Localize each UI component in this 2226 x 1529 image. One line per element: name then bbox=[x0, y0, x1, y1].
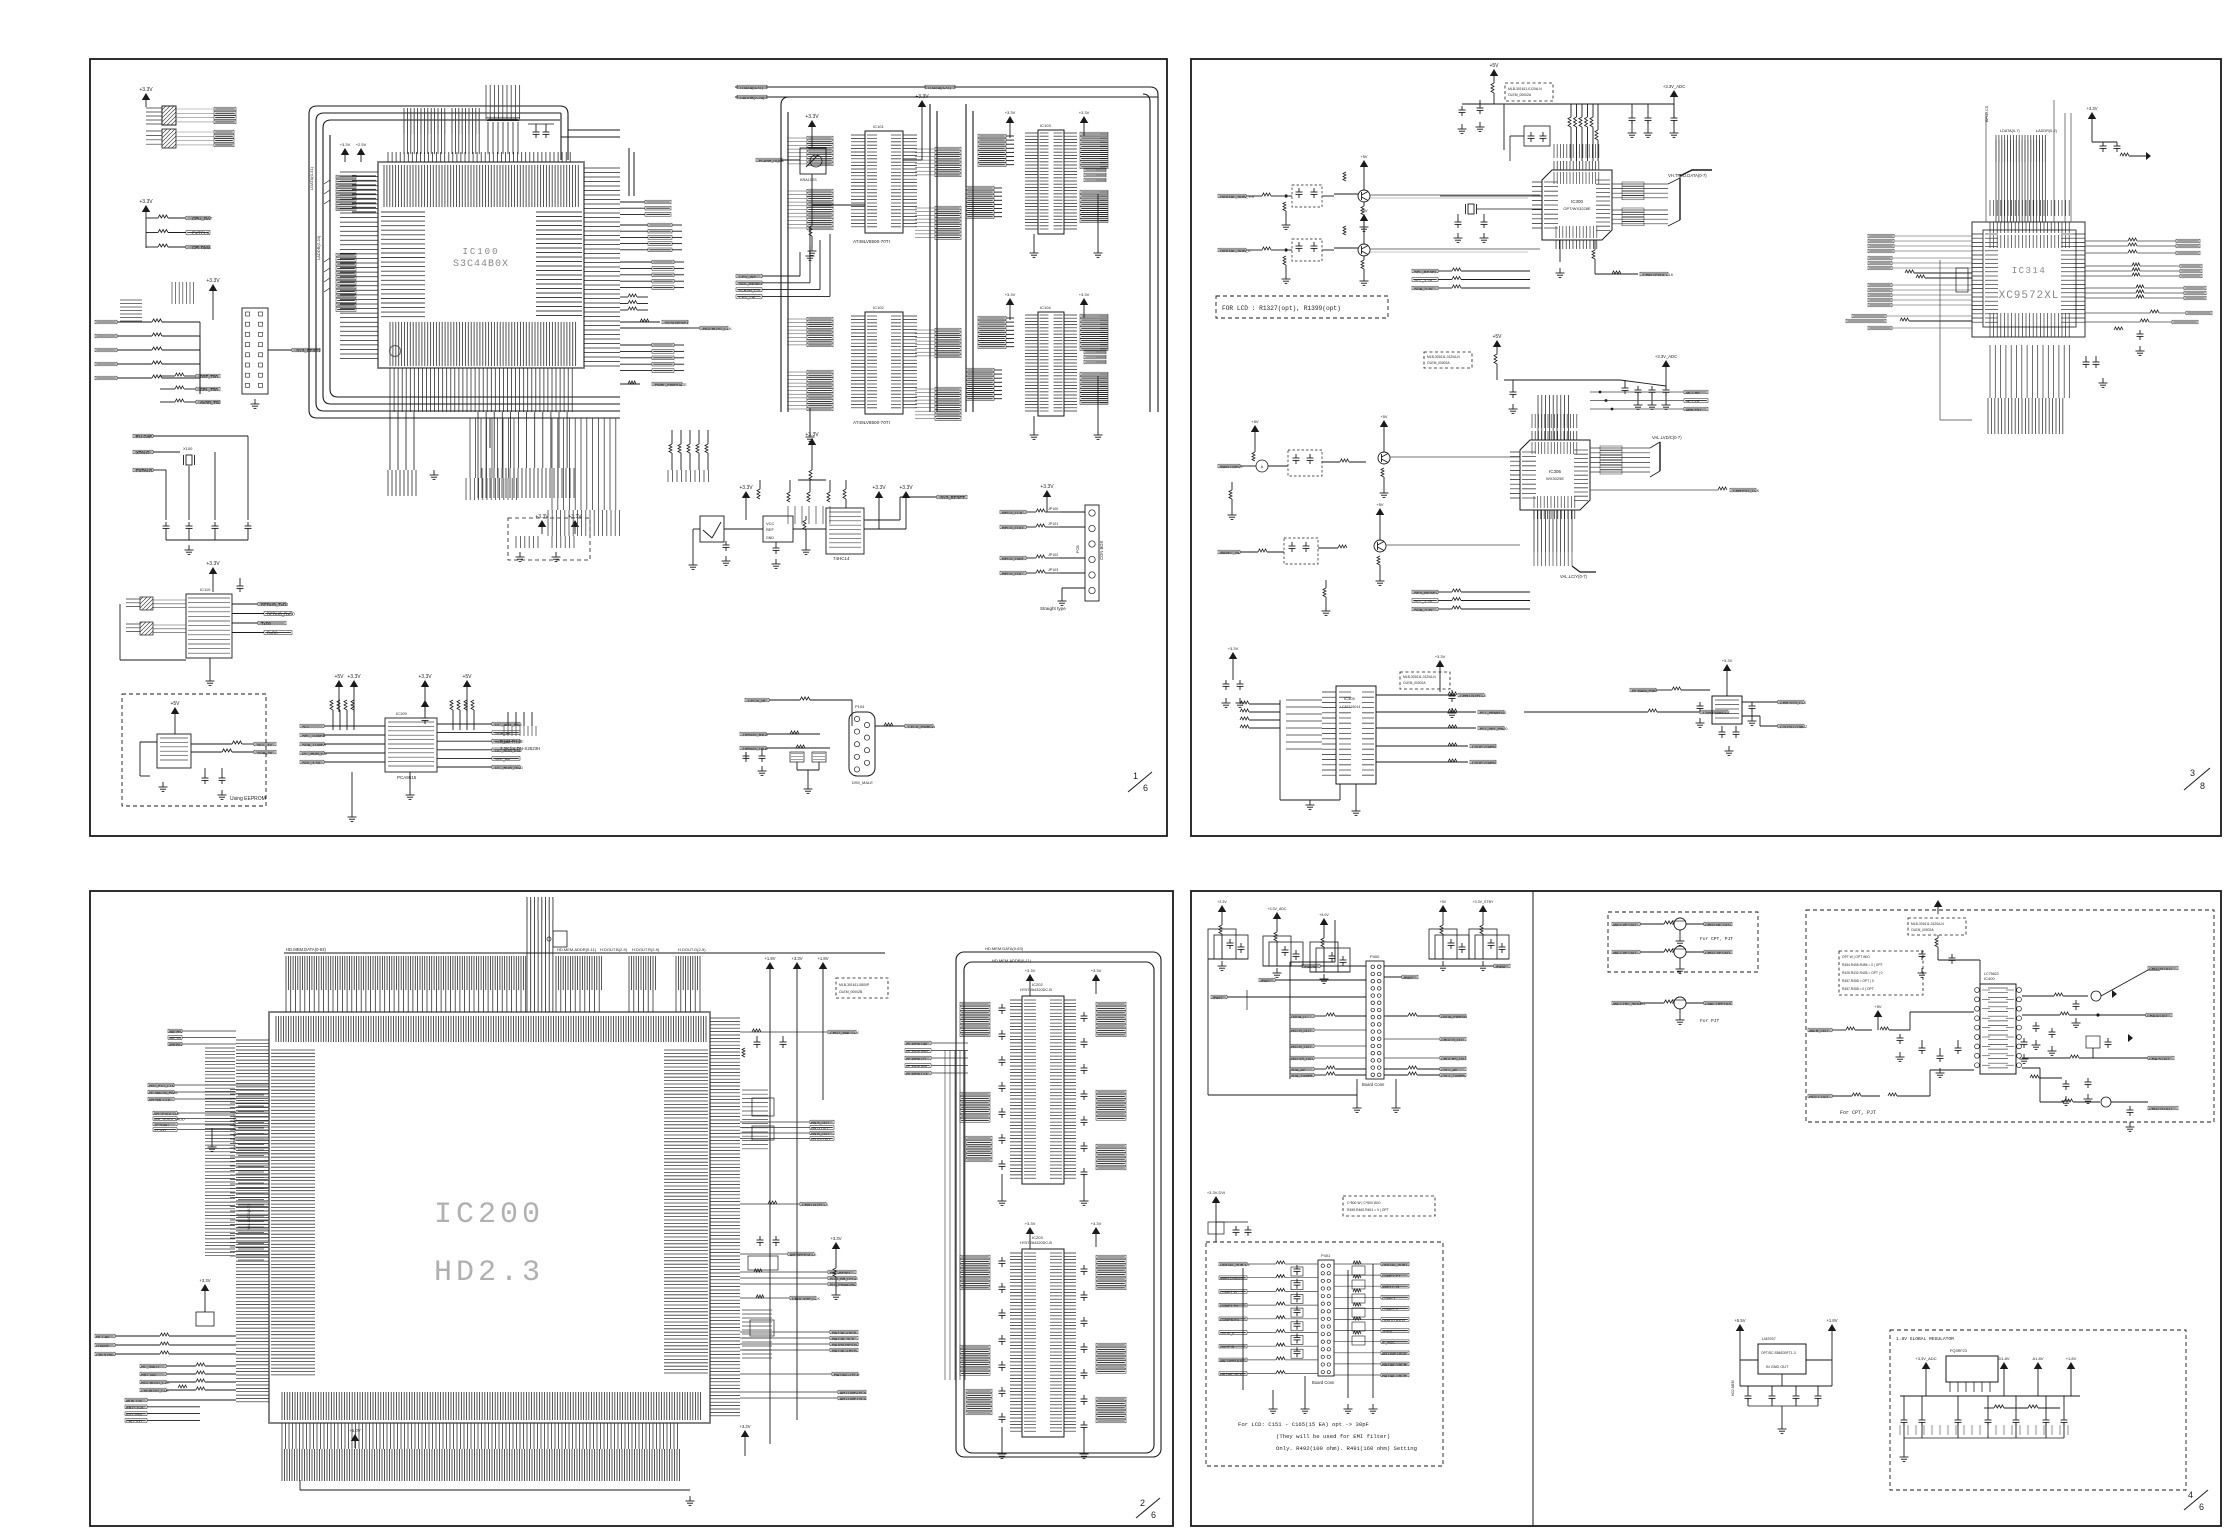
svg-text:OLEM_00002A: OLEM_00002A bbox=[1911, 928, 1934, 932]
svg-text:+5V: +5V bbox=[1360, 208, 1368, 213]
svg-text:KH.SML.CLK: KH.SML.CLK bbox=[149, 1098, 171, 1102]
svg-text:CHD2_WAL.CLK: CHD2_WAL.CLK bbox=[830, 1031, 859, 1035]
svg-text:2.2K for DN-S2523H: 2.2K for DN-S2523H bbox=[500, 746, 540, 751]
svg-text:PLLCAP: PLLCAP bbox=[136, 434, 152, 439]
amp lower-left mosfet bbox=[2086, 1036, 2100, 1048]
svg-text:+3.3V: +3.3V bbox=[1091, 1221, 1102, 1226]
P401 right FET clusters bbox=[1352, 1266, 1365, 1275]
DDR memory block inner ring bbox=[964, 962, 1154, 1453]
svg-text:IC203: IC203 bbox=[1032, 1235, 1043, 1240]
svg-text:HDC-RESET: HDC-RESET bbox=[830, 1271, 852, 1275]
svg-text:A1.8V: A1.8V bbox=[2033, 1356, 2044, 1361]
svg-text:MLB-301611-0120A-N: MLB-301611-0120A-N bbox=[1403, 675, 1436, 679]
IC109 right output rows bbox=[437, 723, 492, 725]
svg-text:VAL.LC/Y(0-7): VAL.LC/Y(0-7) bbox=[1560, 574, 1588, 579]
svg-text:HD2.R_OUT: HD2.R_OUT bbox=[1291, 1045, 1312, 1049]
amp mid caps diodes bbox=[2033, 1025, 2040, 1027]
CHH EXT CLK callout bbox=[1590, 489, 1718, 491]
IC200 top tall bundle bbox=[527, 897, 553, 1012]
input buffer transistor bbox=[1358, 190, 1370, 202]
IC203 right label rows bbox=[1096, 1255, 1126, 1259]
IC300 top resistor columns bbox=[1570, 104, 1572, 117]
svg-text:+3.3V: +3.3V bbox=[1040, 484, 1054, 490]
svg-text:R457.R458 = 0 | OPT: R457.R458 = 0 | OPT bbox=[1842, 987, 1874, 991]
svg-text:VAL.LVDS(0-7): VAL.LVDS(0-7) bbox=[247, 1204, 251, 1230]
IC100 top pin labels inside bbox=[384, 165, 578, 207]
svg-text:+3.3V: +3.3V bbox=[1079, 110, 1090, 115]
MAIN_DVBS coupling network bbox=[1288, 450, 1322, 476]
svg-text:MLB-301611-0120A-N: MLB-301611-0120A-N bbox=[1427, 355, 1460, 359]
svg-text:IC103: IC103 bbox=[1040, 123, 1051, 128]
EEPROM IC111 bbox=[171, 707, 179, 714]
audio input row MAIN_DVBS bbox=[1251, 425, 1259, 432]
IC202 grounds bbox=[1001, 1174, 1003, 1196]
svg-text:DDOA_PWRDN: DDOA_PWRDN bbox=[1441, 1015, 1467, 1019]
svg-text:+3.3V: +3.3V bbox=[139, 87, 153, 93]
below-chip long vertical bundle bbox=[552, 418, 616, 510]
X301 output callouts bbox=[1742, 701, 1778, 703]
svg-text:SEL_TUNER: SEL_TUNER bbox=[302, 733, 326, 738]
audio bias resistors cluster bbox=[1229, 490, 1232, 499]
svg-text:LOAD8: LOAD8 bbox=[96, 1344, 108, 1348]
IC203 power arrows bbox=[1026, 1227, 1034, 1234]
global regulator labels band bbox=[1900, 1425, 2068, 1435]
IC202 right pin stubs bbox=[1064, 1000, 1076, 1178]
svg-text:BPLD.CS: BPLD.CS bbox=[1985, 105, 1989, 122]
svg-text:CHD2.VE.OUT: CHD2.VE.OUT bbox=[1705, 951, 1731, 955]
global regulator ground bbox=[1903, 1438, 1905, 1452]
svg-text:VAL.VS: VAL.VS bbox=[169, 1037, 182, 1041]
svg-text:+3.3V: +3.3V bbox=[139, 199, 153, 205]
svg-text:IC200: IC200 bbox=[434, 1198, 544, 1232]
svg-text:CYOE.27MHZ: CYOE.27MHZ bbox=[1472, 745, 1497, 749]
IC104 grounds bbox=[1033, 416, 1035, 430]
svg-text:CPL_T50: CPL_T50 bbox=[200, 387, 218, 392]
svg-text:CKUL.VSF_CLK: CKUL.VSF_CLK bbox=[792, 1297, 821, 1301]
svg-text:SDL_RESET: SDL_RESET bbox=[739, 281, 763, 286]
video input row DIGITAL_SUB_C bbox=[1218, 248, 1246, 252]
P401 right signal rows bbox=[1334, 1263, 1381, 1265]
audio input row MAIN_C bbox=[1218, 550, 1240, 554]
svg-text:+5V: +5V bbox=[1440, 900, 1447, 904]
svg-text:SYS_RESET: SYS_RESET bbox=[940, 495, 965, 500]
svg-text:PQ3RF23: PQ3RF23 bbox=[1950, 1349, 1967, 1353]
SDL_BRIDGE select resistors bbox=[787, 492, 790, 502]
svg-text:SDA_3V: SDA_3V bbox=[257, 750, 273, 755]
svg-text:OLEM_00002A: OLEM_00002A bbox=[1427, 361, 1450, 365]
svg-text:BST_T00: BST_T00 bbox=[200, 374, 218, 379]
IC306 top bundle bbox=[1538, 395, 1568, 440]
svg-text:VAL.HS: VAL.HS bbox=[169, 1030, 182, 1034]
svg-text:+3.3V_ADC: +3.3V_ADC bbox=[1655, 354, 1677, 359]
svg-text:IF_AGC: IF_AGC bbox=[1382, 1341, 1395, 1345]
reset wiring bbox=[693, 528, 700, 530]
svg-text:SDA_3.3V: SDA_3.3V bbox=[1414, 607, 1433, 612]
IC100 top pin stub group A bbox=[404, 108, 445, 154]
svg-text:DEBUG_RxD0: DEBUG_RxD0 bbox=[267, 612, 295, 617]
IC100 right callout group SAT bbox=[645, 200, 671, 204]
P400 left vertical rail bbox=[1207, 959, 1209, 1095]
svg-text:DIGITAL_SUB_Y/V: DIGITAL_SUB_Y/V bbox=[1220, 194, 1255, 199]
IC109 right resistor columns 2 bbox=[507, 712, 509, 726]
AH LLINE callouts bbox=[740, 1391, 838, 1393]
IC300 option dashed box bbox=[1505, 83, 1553, 101]
svg-text:MAIN.C_IN: MAIN.C_IN bbox=[1220, 551, 1239, 555]
svg-text:FOR LCD : R1327(opt), R1399(op: FOR LCD : R1327(opt), R1399(opt) bbox=[1222, 305, 1341, 312]
svg-text:+5V: +5V bbox=[1360, 154, 1368, 159]
svg-text:CHA.S.OUT: CHA.S.OUT bbox=[2149, 1057, 2170, 1061]
svg-text:PCA9515: PCA9515 bbox=[397, 775, 417, 780]
IC104 left label stack bbox=[978, 316, 1006, 320]
IC101 ground bbox=[809, 227, 811, 251]
svg-text:CHD2.G_OUT: CHD2.G_OUT bbox=[1441, 1038, 1465, 1042]
IC300 bottom pin stubs bbox=[1556, 240, 1597, 249]
svg-text:CHH.SYS_CLK: CHH.SYS_CLK bbox=[1780, 701, 1807, 705]
IC101 pin labels bbox=[867, 135, 877, 227]
global regulator ferrites bbox=[1994, 1405, 2004, 1408]
IC103 pin labels bbox=[1040, 133, 1049, 229]
dram bus ring bbox=[1150, 87, 1158, 412]
IC110 left resistor packs bbox=[140, 597, 153, 610]
svg-text:MA.CVE.OUT: MA.CVE.OUT bbox=[1613, 951, 1637, 955]
svg-text:FLASH_DQ6R: FLASH_DQ6R bbox=[759, 159, 784, 163]
PWRL POWERSTATE callout bbox=[620, 383, 640, 385]
CPLD JTAG jumper rows bbox=[1000, 510, 1026, 514]
MA CTRL signal row bbox=[1612, 1001, 1640, 1005]
IC314 top bus bundle bbox=[1996, 135, 2045, 222]
svg-text:AVSB_T00: AVSB_T00 bbox=[200, 400, 221, 405]
X301 caps bbox=[1697, 705, 1704, 707]
IC200 right lower network bbox=[742, 1310, 772, 1358]
svg-text:+3.3V: +3.3V bbox=[1435, 654, 1446, 659]
svg-text:AH.SPEEDCLK: AH.SPEEDCLK bbox=[790, 1253, 817, 1257]
svg-text:+3.3V-DVI: +3.3V-DVI bbox=[1207, 1190, 1225, 1195]
svg-text:+3.3V: +3.3V bbox=[805, 114, 819, 120]
svg-text:IC314: IC314 bbox=[2012, 266, 2047, 276]
svg-text:CPU_WE: CPU_WE bbox=[739, 274, 756, 279]
svg-text:MLB-301611-0120A-N: MLB-301611-0120A-N bbox=[1508, 87, 1542, 91]
IC200 top bundle junction box bbox=[553, 931, 567, 947]
svg-text:IC202: IC202 bbox=[1032, 982, 1043, 987]
svg-text:SDA_AV: SDA_AV bbox=[1291, 1068, 1306, 1072]
svg-text:PLL_FRMAT/BD: PLL_FRMAT/BD bbox=[830, 1283, 857, 1287]
MAIN_DVBS buffer transistor bbox=[1378, 452, 1390, 464]
IC102 right label stack bbox=[935, 328, 961, 332]
BPLD CS rotated label bbox=[1985, 112, 1987, 222]
svg-text:D1.8V: D1.8V bbox=[1998, 1356, 2009, 1361]
IC314 bottom label columns bbox=[1990, 345, 2070, 398]
svg-text:HD2.3: HD2.3 bbox=[434, 1256, 544, 1290]
svg-text:CXH-LVDF.CLK: CXH-LVDF.CLK bbox=[1703, 711, 1730, 715]
svg-text:+3.3V: +3.3V bbox=[872, 485, 886, 491]
DVI +3.3V feed bbox=[1212, 1196, 1220, 1203]
svg-text:+5V: +5V bbox=[1492, 334, 1502, 340]
EEPROM option dashed box bbox=[122, 694, 266, 806]
DVI input dashed cluster box bbox=[1206, 1242, 1443, 1466]
svg-text:+3.3V: +3.3V bbox=[1091, 968, 1102, 973]
IC314 left callout rows group2 bbox=[1868, 256, 1892, 260]
IC203 pin labels bbox=[1024, 1253, 1036, 1431]
IC203 right pin stubs bbox=[1064, 1253, 1076, 1431]
IC102 ground bbox=[809, 408, 811, 432]
resistor pack RP101 bbox=[162, 129, 176, 148]
P401 input filter 6 bbox=[1291, 1349, 1303, 1358]
IC314 left callout rows group4 bbox=[1852, 314, 1886, 318]
svg-text:HA.CNC.SCK: HA.CNC.SCK bbox=[832, 1337, 855, 1341]
IC200 right bottom arrow bbox=[741, 1430, 749, 1437]
crystal oscillator X100 cluster bbox=[133, 434, 153, 438]
svg-text:+3.3V: +3.3V bbox=[1217, 900, 1227, 904]
svg-text:JP403: JP403 bbox=[1212, 996, 1222, 1000]
svg-text:TP.SDA0: TP.SDA0 bbox=[154, 1123, 169, 1127]
IC101 left label stack bbox=[807, 136, 833, 140]
schematic sheet 4 border bbox=[1191, 891, 2221, 1526]
svg-text:HD2.VS_OUT: HD2.VS_OUT bbox=[1291, 1057, 1314, 1061]
input bias resistors bbox=[1283, 202, 1286, 211]
svg-text:CPLDMX: CPLDMX bbox=[192, 245, 211, 250]
svg-text:For LCD: C151 - C165(15 EA): For LCD: C151 - C165(15 EA) opt -> 30pF bbox=[1238, 1421, 1369, 1428]
svg-text:IC110: IC110 bbox=[200, 587, 211, 592]
svg-text:JP101: JP101 bbox=[1048, 522, 1058, 526]
IC200 inner left label band bbox=[271, 1050, 315, 1375]
IC400 right output row G bbox=[2022, 1067, 2040, 1069]
IC100 left data bus labels bbox=[352, 176, 376, 212]
svg-text:AH.LINE.LRCK: AH.LINE.LRCK bbox=[1382, 1352, 1407, 1356]
MA CTRL vertical wires bbox=[2053, 100, 2055, 222]
IC400 right output row S bbox=[2022, 1057, 2070, 1059]
IC200 bottom rail bbox=[300, 1489, 690, 1491]
EEPROM pull-up resistors bbox=[191, 743, 232, 745]
reset input rows RST100-RST104 bbox=[95, 320, 117, 324]
svg-text:+3.3V: +3.3V bbox=[1228, 646, 1239, 651]
P400 decoupling cap group 4 bbox=[1439, 905, 1447, 912]
P401 input filter 2 bbox=[1291, 1294, 1303, 1303]
dram chip IC103 HY57V641620 bbox=[1038, 130, 1064, 234]
svg-text:MDK.T00: MDK.T00 bbox=[126, 1399, 142, 1403]
svg-text:8: 8 bbox=[2200, 781, 2205, 791]
svg-text:H.DOUT.R(2-9): H.DOUT.R(2-9) bbox=[632, 947, 660, 952]
IC314 right resistor callout rows B bbox=[2085, 265, 2132, 267]
svg-text:SDA_AV: SDA_AV bbox=[495, 731, 511, 736]
svg-text:+3.3V: +3.3V bbox=[739, 1424, 750, 1429]
CPLD JTAG connector CON BOX bbox=[1085, 505, 1099, 601]
svg-text:+3.3V: +3.3V bbox=[340, 142, 351, 147]
P400 board connector bbox=[1366, 961, 1384, 1079]
svg-text:JP401: JP401 bbox=[1260, 979, 1270, 983]
svg-text:SPL_RESET: SPL_RESET bbox=[1414, 269, 1438, 274]
svg-text:MCLH8: MCLH8 bbox=[1686, 390, 1700, 395]
svg-text:I2C_HUB_GND: I2C_HUB_GND bbox=[495, 765, 523, 770]
P400 decoupling cap group 2 bbox=[1273, 912, 1281, 919]
IC305 bottom ground bbox=[1355, 784, 1357, 806]
svg-text:REF: REF bbox=[766, 527, 775, 532]
svg-text:CHLHOST_CLK: CHLHOST_CLK bbox=[141, 1389, 169, 1393]
IC200 bottom pin stubs bbox=[282, 1423, 678, 1449]
IC300 input filter caps bbox=[1477, 107, 1484, 109]
input bias resistors bbox=[1283, 256, 1286, 265]
flash chip IC101 AT49LV8500 bbox=[865, 131, 903, 233]
IC300 right data bus group A bbox=[1612, 183, 1668, 185]
DATA label stack left bbox=[336, 176, 356, 178]
memory bus LDATA top rail bbox=[735, 86, 1150, 88]
page number 2/6 bbox=[1136, 1498, 1160, 1518]
IC101 right label stack bbox=[935, 147, 961, 151]
CPU_TDO rows bbox=[160, 375, 175, 377]
audio amp option table bbox=[1839, 951, 1923, 995]
svg-text:I2C_HUB_EN: I2C_HUB_EN bbox=[302, 751, 327, 756]
flash boot pull resistor bbox=[811, 174, 813, 226]
SYSLRESET HD2 HOST CLK callouts bbox=[620, 321, 660, 323]
svg-text:XC9572XL: XC9572XL bbox=[1999, 290, 2060, 302]
svg-text:JP402M: JP402M bbox=[1303, 965, 1316, 969]
svg-text:VH.TPVDL.CLK: VH.TPVDL.CLK bbox=[154, 1112, 180, 1116]
IC100 right callout group I2C bbox=[652, 260, 674, 264]
svg-text:PLL_FRMFD50: PLL_FRMFD50 bbox=[1480, 711, 1506, 715]
svg-text:HD2.B_OUT: HD2.B_OUT bbox=[1291, 1029, 1312, 1033]
IC306 3.3V adc rail bbox=[1662, 360, 1670, 367]
IC300 crystal cluster bbox=[1468, 204, 1474, 214]
svg-text:EXTALO: EXTALO bbox=[136, 468, 153, 473]
schematic sheet 3 border bbox=[1191, 59, 2221, 836]
svg-text:FLASH_CS: FLASH_CS bbox=[739, 288, 760, 293]
P400 right signal rows bbox=[1440, 1014, 1466, 1018]
P401 input filter 4 bbox=[1291, 1322, 1303, 1331]
IC200 inner right label band bbox=[664, 1050, 708, 1373]
svg-text:HA.DAC.RCK: HA.DAC.RCK bbox=[1220, 1373, 1243, 1377]
svg-text:2: 2 bbox=[1140, 1498, 1145, 1508]
IC100 left pin labels inside bbox=[381, 212, 425, 317]
IC305 dashed option box bbox=[1400, 672, 1450, 689]
IC202 left pin stubs bbox=[1010, 1000, 1022, 1178]
IC305 right callout rows bbox=[1376, 694, 1456, 696]
CPT PJT filter dashed box bbox=[1608, 912, 1758, 972]
standby regulator caps bbox=[1745, 1395, 1752, 1397]
svg-text:+3.3V_ADC: +3.3V_ADC bbox=[1915, 1356, 1936, 1361]
IC200 right option dashed box bbox=[836, 978, 888, 998]
svg-text:MA.CVE.OUT: MA.CVE.OUT bbox=[1613, 923, 1637, 927]
svg-text:HA.DAC.LRCH: HA.DAC.LRCH bbox=[1382, 1374, 1407, 1378]
svg-text:CECK_IR: CECK_IR bbox=[748, 698, 765, 703]
IC300 right data bus group B bbox=[1612, 209, 1668, 211]
svg-text:+3.3V: +3.3V bbox=[1025, 1221, 1036, 1226]
svg-text:R141-R149:: R141-R149: bbox=[500, 739, 524, 744]
IC202 right label rows bbox=[1096, 1002, 1126, 1006]
svg-text:+5V: +5V bbox=[170, 701, 180, 707]
svg-text:MAIN.DVBS/Y: MAIN.DVBS/Y bbox=[1220, 1277, 1244, 1281]
IC314 right host clk rows bbox=[2085, 312, 2150, 314]
svg-text:MCLV8: MCLV8 bbox=[1686, 399, 1700, 404]
amp mid extra caps bbox=[2021, 1041, 2028, 1043]
svg-text:CECK_PWRON: CECK_PWRON bbox=[908, 725, 935, 729]
svg-text:AT49LV8500-70TI: AT49LV8500-70TI bbox=[853, 420, 890, 425]
svg-text:4: 4 bbox=[2188, 1490, 2193, 1500]
svg-text:SCL_3.3V: SCL_3.3V bbox=[1414, 278, 1433, 283]
IC200 right power arrows bbox=[766, 962, 774, 969]
IC200 right top caps bbox=[754, 1041, 761, 1043]
svg-text:+3.3V: +3.3V bbox=[915, 94, 929, 100]
svg-text:DIGITAL_SUB.C: DIGITAL_SUB.C bbox=[1382, 1263, 1409, 1267]
IC102 pin stubs bbox=[851, 316, 865, 408]
audio amp dashed box CPT PJT bbox=[1806, 910, 2214, 1122]
svg-text:2nd.IF_P: 2nd.IF_P bbox=[1220, 1332, 1235, 1336]
svg-text:6: 6 bbox=[2199, 1502, 2204, 1512]
IC200 left bus bundle 2 bbox=[230, 1085, 268, 1256]
svg-text:BPLD_TMS: BPLD_TMS bbox=[1002, 556, 1023, 561]
svg-text:VCC: VCC bbox=[766, 521, 775, 526]
svg-text:CHLSTH0: CHLSTH0 bbox=[96, 1353, 113, 1357]
global regulator output rails bbox=[1900, 1395, 2080, 1397]
svg-text:CYOSO.27MHZ: CYOSO.27MHZ bbox=[1780, 725, 1808, 729]
svg-text:+5.0V: +5.0V bbox=[349, 1428, 360, 1433]
svg-text:HL.MEM.CLK: HL.MEM.CLK bbox=[906, 1072, 929, 1076]
DSUB filter caps bbox=[759, 755, 766, 757]
svg-text:1: 1 bbox=[1133, 771, 1138, 781]
svg-text:HD.MEM.DATA(0-63): HD.MEM.DATA(0-63) bbox=[286, 947, 326, 952]
input buffer bias bbox=[1360, 160, 1368, 167]
svg-text:I2C_AUX_EN4: I2C_AUX_EN4 bbox=[495, 722, 522, 727]
IC202 right cap column bbox=[1081, 1015, 1088, 1017]
svg-text:+3.3V: +3.3V bbox=[739, 485, 753, 491]
memory block left vertical bus bbox=[945, 1050, 965, 1380]
svg-text:CHA.A.OUT: CHA.A.OUT bbox=[2147, 1014, 2168, 1018]
svg-text:+5V: +5V bbox=[334, 674, 344, 680]
svg-text:+3.3V: +3.3V bbox=[568, 514, 582, 520]
svg-text:R459.R460.R461 = 0 | OPT: R459.R460.R461 = 0 | OPT bbox=[1347, 1208, 1389, 1212]
svg-text:HL.MEM.LG: HL.MEM.LG bbox=[906, 1057, 926, 1061]
MA CVE OUT filter row bbox=[1612, 922, 1640, 926]
svg-text:+1.8V: +1.8V bbox=[817, 956, 828, 961]
IC306 left pin rows bbox=[1510, 452, 1520, 498]
svg-text:PCB: PCB bbox=[1076, 545, 1080, 553]
IC314 right pins bbox=[2074, 234, 2085, 322]
svg-text:SDL_AV: SDL_AV bbox=[495, 756, 510, 761]
IC300 +5V input bbox=[1490, 69, 1498, 76]
svg-text:IC100: IC100 bbox=[462, 247, 499, 257]
svg-text:+3.3V: +3.3V bbox=[206, 278, 220, 284]
svg-text:For CPT, PJT: For CPT, PJT bbox=[1700, 936, 1733, 942]
svg-text:S3C44B0X: S3C44B0X bbox=[453, 259, 509, 270]
svg-text:IC102: IC102 bbox=[873, 305, 884, 310]
regulator mid ground bbox=[1781, 1374, 1783, 1386]
reset generator cluster bbox=[742, 491, 750, 498]
svg-text:HH.TPVDL.DATA(0-7): HH.TPVDL.DATA(0-7) bbox=[233, 1112, 237, 1150]
IC103 control row callouts bbox=[1084, 168, 1106, 172]
IC110 right callouts bbox=[232, 603, 258, 605]
IC305 left resistors bbox=[1240, 701, 1249, 704]
IC100 top pin stub group B bbox=[452, 108, 479, 154]
svg-text:TxD0: TxD0 bbox=[261, 621, 272, 626]
IC314 right bottom cap bbox=[2137, 333, 2144, 335]
svg-text:P400: P400 bbox=[1370, 954, 1380, 959]
PLL LVDF CLK extended row bbox=[1524, 711, 1648, 713]
HDC reset callouts bbox=[740, 1271, 828, 1273]
IC314 XC9572XL CPLD body bbox=[1983, 230, 2076, 327]
IC200 bottom-left callout cluster bbox=[201, 1284, 209, 1291]
FOR LCD option dashed box bbox=[1216, 296, 1388, 318]
svg-text:CHM.TPVDL.CLK: CHM.TPVDL.CLK bbox=[1643, 273, 1674, 277]
below-chip mid bundle bbox=[470, 418, 514, 478]
IC100 right pin labels inside bbox=[536, 212, 582, 316]
svg-text:DIGITAL_SUB.Y/V: DIGITAL_SUB.Y/V bbox=[1220, 1263, 1250, 1267]
svg-text:HA.CNC-LRCH: HA.CNC-LRCH bbox=[832, 1349, 857, 1353]
IC314 right resistor callout rows C bbox=[2085, 287, 2136, 289]
IC203 grounds bbox=[1001, 1427, 1003, 1449]
svg-text:HC_SML0: HC_SML0 bbox=[141, 1365, 159, 1369]
IC314 bottom left vertical bbox=[1939, 260, 1941, 420]
IC314 left pins bbox=[1972, 234, 1983, 322]
IC306 top pin stubs bbox=[1532, 431, 1577, 440]
reset top resistor divider bbox=[811, 452, 813, 470]
